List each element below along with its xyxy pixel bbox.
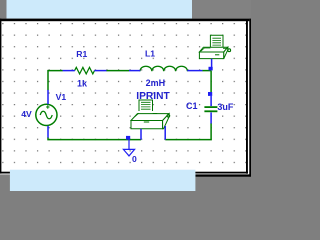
grid dots	[1, 21, 246, 172]
wire R1 to L1	[106, 70, 129, 72]
middle printer left pin	[140, 129, 142, 140]
junction at top printer	[209, 67, 213, 71]
V1 plus mark	[46, 105, 49, 109]
window top border	[0, 19, 249, 22]
title bar left gray strip	[0, 0, 7, 19]
wire from V1 top to R1	[48, 71, 63, 91]
svg-text:0: 0	[132, 154, 137, 164]
IPRINT printer U2 (middle)	[131, 100, 170, 129]
gray block bottom-right	[195, 177, 251, 191]
inductor L1 body	[140, 66, 187, 71]
C1 top pin	[210, 96, 212, 106]
middle printer right pin	[164, 126, 166, 140]
L1 right pin	[187, 70, 202, 72]
wire C1 bottom to rail corner	[165, 123, 211, 139]
gray block bottom-left	[0, 176, 10, 191]
svg-text:3uF: 3uF	[217, 102, 234, 112]
window outer right border	[249, 19, 251, 177]
wire junction down to C1	[210, 71, 212, 93]
svg-text:V1: V1	[56, 92, 67, 102]
canvas inner bottom border	[0, 172, 248, 174]
capacitor C1 bottom plate	[204, 110, 217, 112]
ground triangle	[123, 149, 134, 156]
svg-text:2mH: 2mH	[146, 78, 166, 88]
svg-text:R1: R1	[76, 49, 87, 59]
junction at ground	[126, 136, 130, 140]
voltage source V1 circle	[36, 104, 57, 125]
V1 top pin	[47, 90, 49, 104]
svg-text:C1: C1	[186, 101, 198, 111]
V1 sine wave	[40, 111, 52, 119]
MDI gray background	[0, 0, 251, 191]
canvas white	[0, 19, 249, 175]
IPRINT printer U1 (top right)	[199, 35, 230, 58]
svg-text:1k: 1k	[77, 78, 88, 88]
title bar (light blue)	[7, 0, 193, 19]
L1 left pin	[129, 70, 140, 72]
svg-text:IPRINT: IPRINT	[136, 91, 170, 102]
V1 bottom pin	[47, 126, 49, 138]
window outer bottom border	[196, 174, 252, 176]
C1 bottom pin	[210, 112, 212, 123]
wire L1 to junction	[202, 70, 211, 72]
rail left segment to V1	[48, 137, 141, 139]
ground stem	[128, 140, 130, 150]
resistor R1 body	[75, 67, 95, 74]
bottom light blue panel	[10, 170, 196, 191]
svg-text:L1: L1	[145, 48, 155, 58]
junction above C1	[208, 92, 212, 96]
window left border	[0, 19, 1, 174]
title bar right gray area	[192, 0, 251, 19]
R1 left pin	[63, 70, 75, 72]
R1 right pin	[94, 70, 106, 72]
svg-text:4V: 4V	[21, 109, 32, 119]
canvas inner right border	[246, 21, 248, 174]
capacitor C1 top plate	[204, 106, 217, 108]
top printer pin	[211, 59, 213, 68]
